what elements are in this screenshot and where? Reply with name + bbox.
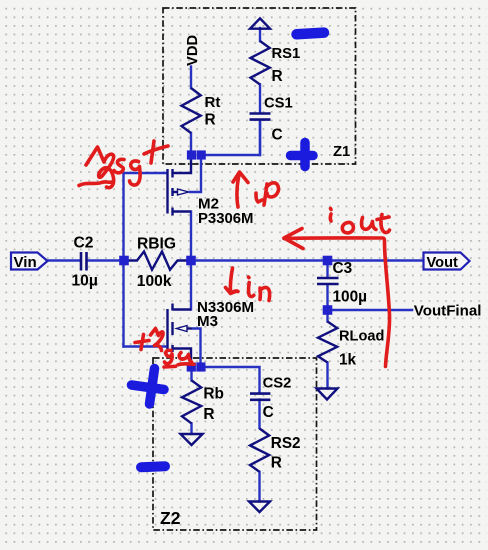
svg-text:R: R — [271, 454, 282, 471]
wire Rt to node — [190, 133, 192, 155]
resistor Rt — [182, 88, 201, 133]
capacitor CS1 plates — [250, 112, 271, 115]
svg-text:Z2: Z2 — [160, 508, 181, 528]
junction node squares — [119, 150, 332, 371]
red annotation gamma of +r near M3 — [151, 329, 164, 351]
red annotation plus of +r near M3 — [135, 335, 149, 350]
svg-text:RS1: RS1 — [272, 46, 301, 62]
wire M2 drain to node B — [190, 212, 192, 261]
svg-text:100k: 100k — [137, 273, 172, 290]
wire M2 bulk to node (bright) — [189, 155, 201, 192]
red annotation n of vin — [260, 287, 270, 300]
wire Rb to ground — [190, 423, 192, 434]
wire RLoad top — [326, 310, 328, 322]
red annotation s near M3 gate — [178, 353, 194, 365]
svg-text:RBIG: RBIG — [137, 235, 176, 252]
wire M3 drain to node B — [190, 261, 192, 310]
svg-text:CS1: CS1 — [264, 95, 293, 111]
wire C3 bottom — [326, 285, 328, 311]
svg-text:R: R — [203, 406, 214, 423]
red annotation out of iout — [342, 215, 389, 233]
wire RS1 stem — [259, 28, 261, 41]
svg-text:Vin: Vin — [14, 254, 37, 271]
blue marker plus in Z1 — [291, 151, 314, 161]
red annotation underline of rsg — [79, 182, 112, 186]
svg-text:C3: C3 — [333, 260, 353, 277]
svg-text:VoutFinal: VoutFinal — [414, 303, 482, 320]
red annotation g near M3 gate — [164, 350, 176, 367]
svg-text:Rb: Rb — [203, 385, 224, 402]
svg-text:P3306M: P3306M — [198, 211, 253, 227]
capacitor C3 plates — [317, 277, 339, 280]
wire node B to C3 node — [191, 259, 328, 261]
transistor M3 N3306M — [168, 304, 193, 368]
capacitor CS2 plates — [250, 392, 270, 395]
wire C3 node to Vout — [328, 259, 424, 261]
svg-text:C2: C2 — [74, 235, 94, 252]
svg-text:R: R — [272, 68, 283, 85]
red annotation s of rsg — [114, 159, 124, 173]
Z2 impedance box (dash-dot border) — [153, 358, 317, 530]
resistor RS2 — [250, 429, 269, 472]
wire CS1 to top node — [259, 121, 261, 156]
ground below RS2 — [249, 502, 270, 513]
wire RS2 to ground — [258, 472, 260, 502]
wire CS2 to RS2 — [258, 400, 260, 429]
svg-text:CS2: CS2 — [263, 376, 292, 392]
wire C2 to node A — [88, 259, 125, 261]
red annotation iout arrow — [284, 238, 390, 367]
svg-text:RS2: RS2 — [271, 435, 301, 452]
svg-text:Vout: Vout — [427, 255, 458, 271]
resistor RLoad — [318, 322, 337, 363]
red annotation i of vin — [249, 277, 254, 297]
wire M3 bulk to source node (bright) — [192, 329, 201, 368]
red annotation cross near M2 source — [144, 146, 168, 154]
svg-text:10µ: 10µ — [72, 272, 98, 289]
wire Vin to C2 — [48, 259, 81, 261]
red annotation p of ip — [264, 183, 279, 205]
transistor M2 P3306M — [168, 155, 192, 216]
capacitor C2 plates — [80, 252, 83, 271]
resistor RBIG — [124, 252, 191, 270]
svg-text:C: C — [263, 404, 274, 421]
svg-text:R: R — [205, 112, 216, 129]
resistor Rb — [182, 380, 201, 423]
wire C3 top — [326, 261, 328, 278]
svg-text:Z1: Z1 — [333, 144, 350, 160]
red annotation i of ip — [256, 193, 262, 202]
wire top node to Z1 chain (bright) — [201, 121, 260, 155]
wire M3 gate lead — [124, 345, 168, 347]
svg-text:VDD: VDD — [185, 34, 201, 66]
wire RS1 to CS1 — [259, 85, 261, 114]
blue marker dash in Z2 — [141, 466, 165, 467]
wire Rb top — [190, 367, 192, 380]
wire to VoutFinal — [328, 309, 413, 311]
ground below RLoad — [317, 389, 338, 400]
svg-text:Rt: Rt — [205, 94, 221, 111]
wire VDD to Rt — [190, 67, 192, 89]
Z1 impedance box (dash-dot border) — [163, 8, 356, 164]
wire bottom node to CS2 — [201, 367, 260, 393]
wire M2 gate lead — [124, 172, 168, 174]
blue marker cross in Z2 — [150, 369, 155, 405]
svg-text:RLoad: RLoad — [339, 328, 384, 344]
svg-text:100µ: 100µ — [333, 288, 368, 305]
ground below Rb — [181, 434, 203, 445]
red annotation gamma of rsg — [86, 147, 114, 188]
wire gate bus vertical — [122, 173, 124, 347]
flipped ground above RS1 — [250, 18, 270, 28]
svg-text:1k: 1k — [339, 351, 357, 368]
red annotation vin down arrow — [226, 268, 239, 294]
blue marker dash in Z1 top — [297, 33, 325, 35]
svg-text:M3: M3 — [197, 313, 218, 330]
port flag Vin — [11, 253, 48, 271]
red annotation i of iout — [328, 209, 332, 222]
red annotation g of rsg — [130, 161, 141, 185]
svg-text:C: C — [272, 127, 283, 144]
red annotation ip up arrow — [237, 173, 240, 207]
port flag Vout — [424, 253, 470, 271]
wire RLoad to ground — [326, 363, 328, 389]
resistor RS1 — [251, 41, 270, 85]
